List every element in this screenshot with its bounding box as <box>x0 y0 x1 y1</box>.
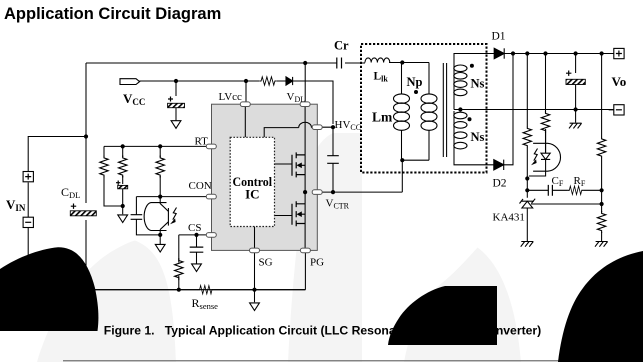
svg-text:PG: PG <box>310 257 324 269</box>
svg-text:Vo: Vo <box>612 74 627 89</box>
svg-text:D2: D2 <box>493 178 507 190</box>
svg-text:CS: CS <box>188 222 201 234</box>
svg-text:IC: IC <box>245 187 259 202</box>
svg-text:VDL: VDL <box>287 91 306 104</box>
svg-text:Application Circuit Diagram: Application Circuit Diagram <box>4 5 221 23</box>
svg-text:Np: Np <box>407 75 423 89</box>
svg-text:CF: CF <box>552 175 564 188</box>
svg-text:RT: RT <box>195 136 209 148</box>
svg-text:KA431: KA431 <box>493 212 525 224</box>
svg-text:LVcc: LVcc <box>219 91 243 103</box>
svg-text:CON: CON <box>189 180 212 192</box>
svg-text:Ns: Ns <box>471 77 485 91</box>
svg-text:Ns: Ns <box>471 130 485 144</box>
svg-text:VCC: VCC <box>123 91 145 107</box>
svg-text:Rsense: Rsense <box>192 296 219 311</box>
svg-text:HVCC: HVCC <box>335 119 362 132</box>
svg-text:RF: RF <box>574 175 586 188</box>
svg-text:CDL: CDL <box>61 185 80 200</box>
svg-text:D1: D1 <box>492 31 506 43</box>
svg-text:Cr: Cr <box>334 39 349 53</box>
svg-text:Lm: Lm <box>372 110 393 125</box>
svg-text:SG: SG <box>259 257 273 269</box>
svg-text:VIN: VIN <box>6 197 26 213</box>
